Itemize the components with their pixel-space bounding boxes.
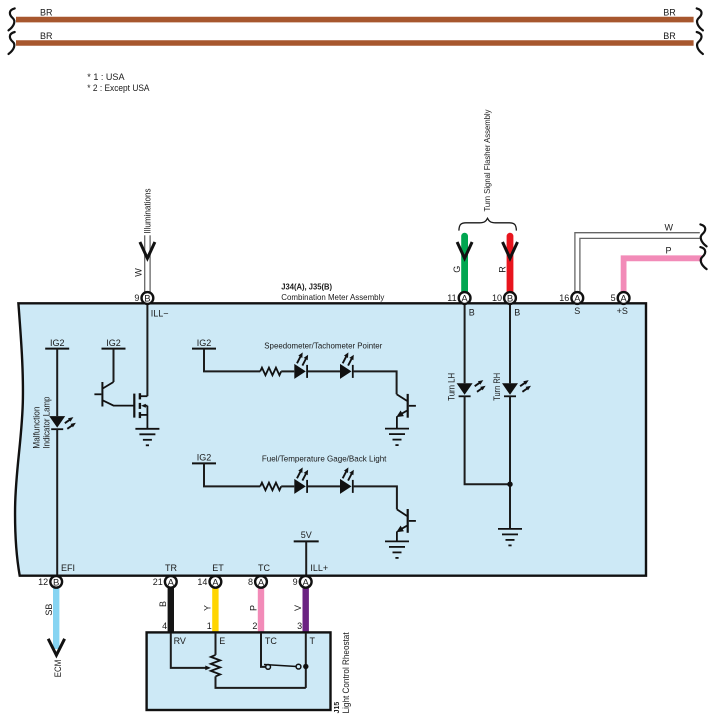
LED D5 Turn LH [457,380,486,396]
svg-text:8: 8 [248,577,253,587]
transistor Q2 (MOSFET) [134,393,147,429]
wire to transistor Q3 [354,371,397,394]
wire to transistor Q4 [354,486,397,509]
power 5V [294,530,319,575]
svg-text:A: A [574,294,581,305]
wire P (pink) to pin 5 [624,258,703,292]
wire R (red) to pin 10 [507,236,514,292]
svg-text:* 1 : USA: * 1 : USA [87,72,124,82]
svg-text:G: G [452,266,462,273]
wire from pin 11 to Turn LH LED [464,304,466,383]
break symbol left of upper BR wire [9,8,15,30]
transistor Q4 (fuel/temp driver) [396,509,416,541]
power IG2 #4 (fuel/temp circuit) [192,453,260,487]
wire BR (upper brown wire, net BR) [16,17,694,23]
svg-text:16: 16 [559,293,569,303]
svg-text:Turn RH: Turn RH [492,373,502,401]
svg-text:S: S [574,306,580,316]
svg-text:BR: BR [40,31,53,41]
wire Y (yellow) pin 14 to rheostat pin 1 [212,588,218,632]
svg-text:IG2: IG2 [106,338,121,348]
wire W (double-line) to pin 16 [575,233,700,292]
wire E to rheostat resistor [215,633,217,655]
svg-text:TC: TC [265,636,277,646]
wire V (violet) pin 9 to rheostat pin 3 [303,588,309,632]
svg-text:14: 14 [197,577,207,587]
brace over turn signal wires [459,218,517,230]
arrow on SB wire [48,639,64,655]
LED D6 Turn RH [502,380,531,396]
wire B (black) pin 21 to rheostat pin 4 [168,588,174,632]
wire W from Illuminations to pin 9 (double-line white wire) [145,235,150,292]
svg-text:Turn Signal Flasher Assembly: Turn Signal Flasher Assembly [482,109,492,212]
svg-text:Y: Y [203,605,213,611]
svg-text:10: 10 [492,293,502,303]
svg-text:2: 2 [252,621,257,631]
resistor R3 (rheostat) [211,655,220,677]
svg-text:BR: BR [40,8,53,18]
svg-text:1: 1 [207,621,212,631]
svg-text:ECM: ECM [53,660,63,678]
break symbol right of lower BR wire [697,32,703,54]
svg-text:Indicator Lamp: Indicator Lamp [42,397,52,449]
wire [308,370,340,372]
combination meter assembly box [15,303,646,575]
svg-text:IG2: IG2 [197,453,212,463]
light control rheostat box [147,632,331,710]
svg-text:TR: TR [165,563,177,573]
svg-text:4: 4 [162,621,167,631]
ground under turn signal LEDs [498,529,522,546]
wire G (green) to pin 11 [461,236,468,292]
pin 10 (B) top [492,292,516,304]
svg-text:W: W [133,268,143,277]
ground under Q3 [385,429,409,446]
svg-text:3: 3 [297,621,302,631]
svg-text:B: B [514,308,520,318]
LED D2 (speedometer) [340,352,354,379]
svg-text:12: 12 [38,577,48,587]
svg-text:5V: 5V [301,530,312,540]
wire from MIL to pin 12 EFI [56,429,58,574]
svg-text:B: B [469,308,475,318]
wire BR (lower brown wire, net BR) [16,40,694,46]
LED malfunction indicator lamp [49,416,76,429]
svg-text:B: B [158,601,168,607]
pin 11 (A) top [447,292,470,304]
power IG2 #2 [102,338,126,382]
wire from pin 10 to Turn RH LED [509,304,511,383]
svg-text:ET: ET [212,563,224,573]
wire P (pink) pin 8 to rheostat pin 2 [258,588,264,632]
wire rheostat bottom to T line [216,676,306,688]
svg-text:A: A [168,577,175,588]
svg-text:IG2: IG2 [50,338,65,348]
pin 16 (A) top [559,292,583,304]
pin 12 (B) bottom [38,576,62,588]
svg-text:EFI: EFI [61,563,75,573]
svg-text:T: T [310,636,316,646]
svg-text:B: B [507,294,513,305]
pin 5 (A) top [611,292,630,304]
pin 14 (A) bottom [197,576,221,588]
svg-text:B: B [144,294,150,305]
svg-text:Speedometer/Tachometer Pointer: Speedometer/Tachometer Pointer [264,340,382,350]
resistor R2 (fuel/temp) [260,483,281,491]
transistor Q1 (bipolar, drives MOSFET gate) [94,382,134,407]
wire [281,370,294,372]
svg-text:E: E [219,636,225,646]
svg-text:SB: SB [44,604,54,616]
svg-text:ILL+: ILL+ [310,563,328,573]
svg-text:+S: +S [617,306,628,316]
wire [308,485,340,487]
svg-text:Combination Meter Assembly: Combination Meter Assembly [281,292,385,302]
wire RV to wiper arrow [171,633,206,668]
break symbol right of P wire [700,247,706,269]
svg-text:RV: RV [174,636,186,646]
wire ILL- from pin 9 to MOSFET drain [146,304,148,396]
svg-text:21: 21 [153,577,163,587]
wire T pin down [305,633,307,688]
svg-text:5: 5 [611,293,616,303]
ground under MOSFET [135,429,159,446]
svg-text:V: V [293,605,303,611]
power IG2 #3 (speedometer circuit) [192,338,260,372]
arrow on Illuminations wire [140,242,155,258]
svg-text:ILL−: ILL− [151,309,169,319]
svg-text:P: P [248,605,258,611]
LED D4 (fuel/temp) [340,467,354,494]
pin 9 (B) top [134,292,153,304]
svg-text:A: A [212,577,219,588]
ground under Q4 [385,541,409,558]
svg-text:A: A [461,294,468,305]
wire Turn LH to junction [465,396,510,484]
svg-text:IG2: IG2 [197,338,212,348]
svg-text:W: W [665,223,674,233]
svg-text:BR: BR [663,8,676,18]
svg-text:Fuel/Temperature Gage/Back Lig: Fuel/Temperature Gage/Back Light [262,454,387,464]
svg-text:9: 9 [134,293,139,303]
arrow on red wire [503,242,518,258]
pin 21 (A) bottom [153,576,177,588]
svg-text:TC: TC [258,563,270,573]
svg-text:BR: BR [663,31,676,41]
wire SB from pin 12 to ECM [53,588,59,649]
svg-text:* 2 : Except USA: * 2 : Except USA [87,83,149,93]
svg-text:J15: J15 [332,702,341,714]
svg-text:Light Control Rheostat: Light Control Rheostat [341,632,351,713]
LED D3 (fuel/temp) [294,467,308,494]
svg-text:Turn LH: Turn LH [447,373,457,401]
transistor Q3 (speedometer driver) [396,394,416,429]
svg-text:A: A [303,577,310,588]
LED D1 (speedometer) [294,352,308,379]
svg-text:11: 11 [447,293,456,303]
break symbol right of upper BR wire [697,8,703,30]
svg-text:A: A [620,294,627,305]
junction dot [507,482,512,487]
power IG2 #1 [45,338,69,416]
wire [281,485,294,487]
svg-text:Illuminations: Illuminations [142,188,152,233]
pin 8 (A) bottom [248,576,267,588]
svg-text:9: 9 [293,577,298,587]
wiper arrowhead [205,666,211,671]
pin 9 (A) bottom [293,576,312,588]
svg-text:J34(A), J35(B): J34(A), J35(B) [281,282,332,292]
arrow on green wire [457,242,472,258]
switch SW1 (rheostat switch) [264,664,308,670]
break symbol left of lower BR wire [9,32,15,54]
wire Turn RH down to ground [509,396,511,529]
break symbol right of W wire [700,224,706,246]
svg-text:B: B [53,577,59,588]
svg-text:Malfunction: Malfunction [32,407,42,449]
svg-text:P: P [666,245,672,255]
resistor R1 (speedometer) [260,368,281,376]
svg-text:A: A [258,577,265,588]
wire TC to switch [261,633,266,667]
svg-text:R: R [498,266,508,273]
